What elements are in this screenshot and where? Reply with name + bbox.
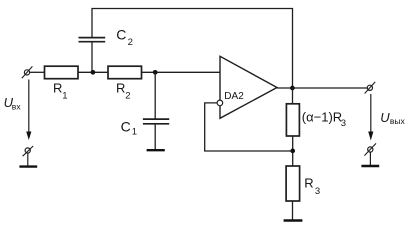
node junction R1-R2-C2	[91, 70, 96, 75]
node junction feedback-R3	[290, 149, 295, 154]
svg-text:3: 3	[341, 118, 346, 129]
svg-text:R: R	[53, 81, 62, 96]
ground bar under C1	[147, 149, 165, 151]
svg-text:R: R	[116, 81, 125, 96]
wire R3 to ground	[292, 201, 294, 220]
op-amp DA2	[217, 56, 277, 118]
label U_vx with arrow	[4, 80, 32, 141]
wire R2 to op-amp input	[142, 71, 221, 73]
wire C1 to ground	[154, 125, 156, 151]
wire R1 to R2	[78, 71, 108, 73]
resistor R1	[45, 66, 79, 101]
svg-text:U: U	[380, 110, 390, 125]
svg-text:2: 2	[125, 90, 130, 101]
svg-text:(α−1)R: (α−1)R	[302, 109, 342, 124]
svg-text:вх: вх	[12, 102, 22, 112]
resistor R2	[108, 66, 142, 101]
left lower terminal	[23, 146, 34, 166]
ground bar left	[19, 165, 37, 167]
capacitor C1	[121, 119, 170, 138]
svg-text:вых: вых	[390, 116, 406, 126]
output terminal	[365, 82, 376, 94]
wire junction to C1	[154, 72, 156, 118]
wire (a-1)R3 to R3	[292, 136, 294, 166]
svg-text:3: 3	[315, 186, 320, 197]
resistor (a-1)R3	[286, 104, 346, 136]
right lower terminal	[364, 143, 376, 165]
svg-text:DA2: DA2	[224, 91, 244, 102]
wire C2 bottom to R1/R2 junction	[91, 43, 93, 73]
svg-text:C: C	[121, 119, 131, 135]
svg-text:R: R	[304, 176, 313, 191]
resistor R3	[286, 166, 320, 201]
wire feedback top (output node up and across to C2)	[92, 9, 293, 89]
wire input terminal to R1	[30, 71, 45, 73]
svg-text:C: C	[116, 26, 126, 42]
wire output node down to (a-1)R3	[292, 88, 294, 104]
capacitor C2	[79, 26, 133, 48]
ground bar under R3	[284, 219, 303, 221]
node output junction	[290, 86, 295, 91]
label U_vyx with arrow	[368, 94, 405, 141]
svg-text:1: 1	[62, 90, 67, 101]
wire inverting feedback (bubble left, down, to R3 junction)	[205, 103, 291, 151]
wire op-amp output	[277, 87, 367, 89]
ground bar right	[361, 165, 379, 167]
svg-text:1: 1	[132, 127, 137, 138]
node junction R2-C1	[153, 70, 158, 75]
input terminal	[22, 66, 33, 78]
svg-text:2: 2	[128, 37, 133, 48]
